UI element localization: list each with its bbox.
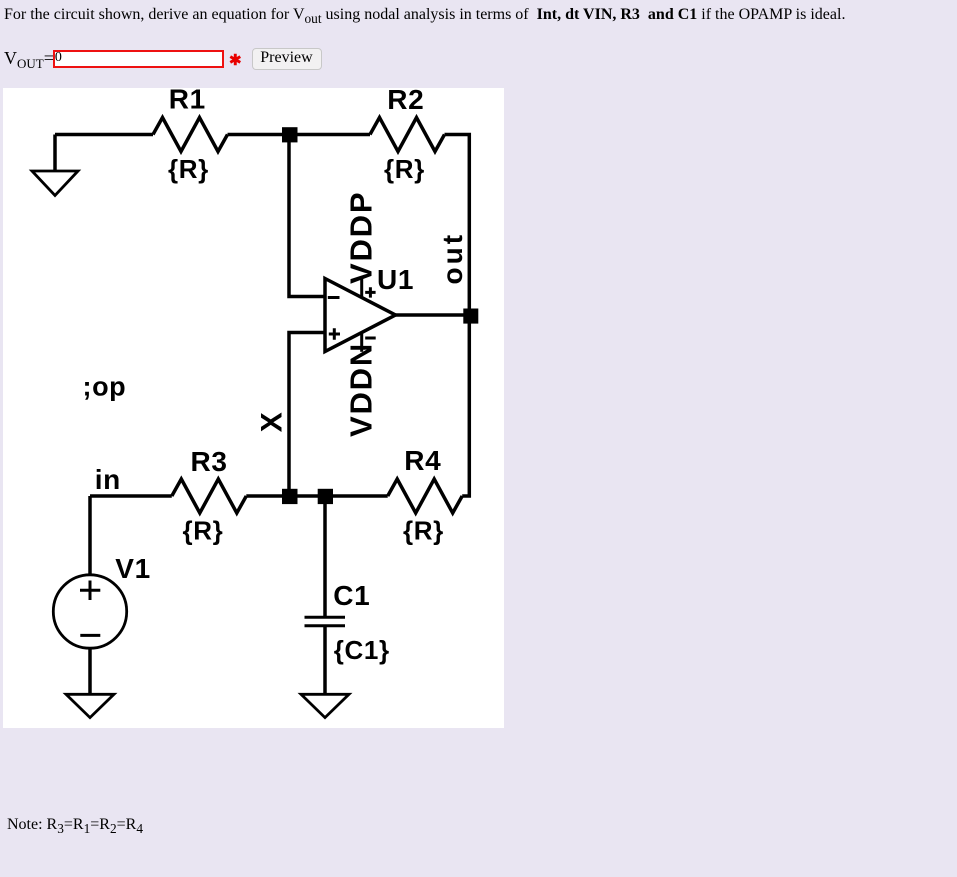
wire C1 to ground — [323, 626, 327, 694]
ground under V1 — [66, 694, 114, 717]
svg-text:VDDP: VDDP — [344, 191, 379, 284]
wire R3 to node X junction — [246, 494, 325, 498]
U1 positive power pin polarity + — [365, 287, 375, 297]
junction node X left (R3/X wire) — [282, 489, 298, 504]
answer entry row — [4, 46, 54, 72]
U1 non-inverting input marker + — [329, 328, 340, 339]
svg-text:U1: U1 — [377, 264, 414, 295]
voltage source V1 circle — [53, 575, 126, 648]
svg-text:{R}: {R} — [168, 154, 209, 184]
capacitor C1 top plate — [305, 616, 346, 619]
wire top junction to U1 inverting input — [289, 135, 325, 297]
svg-text:R4: R4 — [404, 445, 441, 476]
V1 plus marker — [80, 581, 100, 601]
op-amp U1 body — [325, 279, 396, 352]
wire in node down to V1 — [88, 496, 92, 575]
U1 inverting input marker - — [328, 296, 340, 299]
wire ground riser top-left — [53, 135, 57, 172]
wire junction to R4 — [325, 494, 388, 498]
svg-text:R2: R2 — [387, 88, 424, 115]
svg-text:R3: R3 — [191, 446, 228, 477]
svg-text:C1: C1 — [333, 580, 370, 611]
svg-text:{R}: {R} — [403, 516, 444, 546]
wire ground to R1 — [55, 133, 153, 137]
svg-text:{C1}: {C1} — [334, 635, 390, 665]
svg-text:in: in — [95, 464, 121, 495]
U1 negative power pin polarity - — [365, 337, 376, 340]
svg-text:VDDN: VDDN — [344, 342, 379, 437]
resistor R3 — [172, 479, 247, 513]
wire U1 output to out node — [396, 313, 470, 317]
ground under C1 — [301, 694, 349, 717]
svg-text:out: out — [437, 232, 468, 285]
svg-text:;op: ;op — [83, 372, 127, 402]
svg-text:R1: R1 — [169, 88, 206, 114]
junction node X right (R4/C1) — [318, 489, 333, 504]
wire node X to U1 non-inverting input — [289, 333, 325, 497]
wire junction down to C1 — [323, 496, 327, 617]
svg-text:{R}: {R} — [384, 154, 425, 184]
resistor R2 — [370, 118, 445, 152]
footnote — [7, 816, 143, 837]
junction node top (R1/R2/inverting input) — [282, 127, 298, 142]
ground top-left — [32, 171, 78, 196]
junction node out (U1 output/R2/R4) — [463, 309, 478, 324]
svg-text:X: X — [256, 412, 289, 433]
svg-text:V1: V1 — [115, 553, 150, 584]
problem statement text — [4, 6, 845, 27]
circuit schematic panel — [3, 88, 504, 728]
wire in node to R3 — [90, 494, 172, 498]
U1 negative power pin stub — [360, 332, 363, 352]
wire R2 to out rail (net out) — [445, 135, 470, 497]
capacitor C1 bottom plate — [305, 624, 346, 627]
svg-text:{R}: {R} — [183, 516, 224, 546]
V1 minus marker — [80, 634, 100, 637]
U1 positive power pin stub — [360, 279, 363, 297]
resistor R1 — [153, 118, 228, 152]
wire R1 to top junction — [228, 133, 371, 137]
wire V1 to ground — [88, 648, 92, 694]
resistor R4 — [388, 479, 463, 513]
